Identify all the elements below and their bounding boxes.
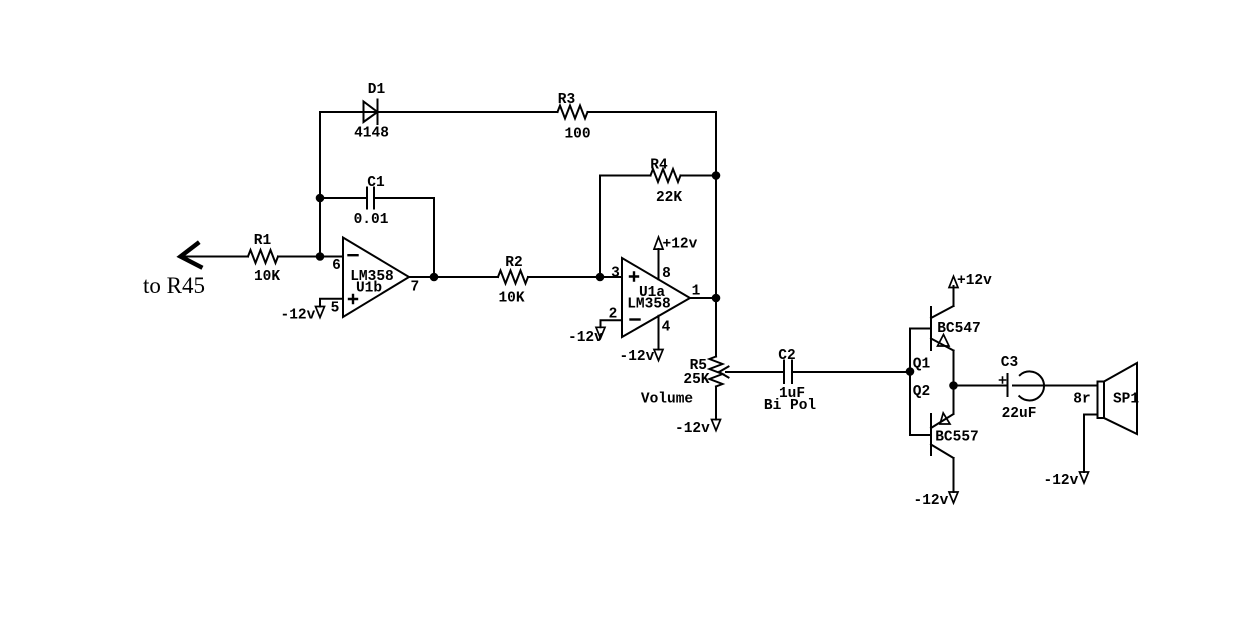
wire C1 left	[320, 197, 367, 199]
R5 wiper arrow	[719, 367, 784, 378]
svg-text:5: 5	[331, 301, 340, 317]
svg-text:8: 8	[662, 266, 671, 282]
wire U1a output	[690, 297, 716, 299]
wire emitter node to C3	[954, 385, 1008, 387]
svg-text:+12v: +12v	[957, 273, 992, 289]
svg-text:4148: 4148	[354, 126, 389, 142]
junction node U1a output	[712, 294, 721, 303]
wire R1 to pin6	[278, 256, 343, 258]
svg-text:2: 2	[609, 307, 618, 323]
U1a plus input mark	[630, 273, 638, 281]
op-amp U1a	[622, 258, 690, 337]
power -12v arrow U1a pin2	[596, 327, 605, 338]
transistor Q2	[910, 386, 954, 493]
power -12v arrow Q2	[949, 492, 958, 503]
svg-text:-12v: -12v	[281, 308, 316, 324]
svg-text:0.01: 0.01	[354, 212, 389, 228]
wire pin5 step	[320, 299, 343, 307]
power -12v arrow R5	[712, 420, 721, 431]
svg-text:Q1: Q1	[913, 357, 931, 373]
C3 plus mark	[1000, 377, 1006, 383]
wire output node to R2	[434, 276, 498, 278]
arrow to R45	[181, 244, 201, 267]
wire R5 bottom	[715, 387, 717, 420]
resistor R4	[651, 169, 681, 182]
svg-text:+12v: +12v	[663, 237, 698, 253]
wire C3 to speaker	[1013, 385, 1098, 387]
wire R4 right	[681, 175, 717, 177]
svg-text:7: 7	[410, 280, 419, 296]
wire top feedback left segment	[320, 111, 378, 113]
svg-text:3: 3	[611, 266, 620, 282]
svg-text:25K: 25K	[683, 372, 709, 388]
svg-text:R4: R4	[650, 158, 668, 174]
junction node emitters out	[949, 381, 958, 390]
svg-text:6: 6	[332, 258, 341, 274]
svg-text:R1: R1	[254, 233, 272, 249]
power +12v arrow Q1	[949, 276, 958, 287]
wire pin8	[658, 249, 660, 279]
wire vertical x716 feedback/pot	[715, 112, 717, 357]
wire input to R1	[184, 256, 248, 258]
svg-text:D1: D1	[368, 82, 386, 98]
svg-text:R2: R2	[505, 255, 522, 271]
wire top feedback right segment	[588, 111, 717, 113]
U1b minus input mark	[349, 254, 358, 256]
diode D1	[364, 100, 378, 125]
svg-text:-12v: -12v	[620, 349, 655, 365]
svg-text:to R45: to R45	[143, 273, 205, 298]
wire base vertical x910	[909, 329, 911, 436]
resistor R3	[558, 106, 588, 119]
svg-text:SP1: SP1	[1113, 392, 1139, 408]
capacitor C1	[367, 188, 374, 209]
svg-text:100: 100	[564, 127, 590, 143]
svg-text:1: 1	[692, 284, 701, 300]
power -12v arrow U1a pin4	[654, 350, 663, 361]
wire pin4	[658, 316, 660, 350]
wire R2 to pin3	[528, 276, 622, 278]
wire vertical x600 to R4	[599, 176, 601, 278]
svg-text:Volume: Volume	[641, 392, 693, 408]
svg-text:C1: C1	[367, 175, 385, 191]
capacitor C3 curved plate	[1019, 371, 1044, 400]
svg-text:-12v: -12v	[1044, 473, 1079, 489]
junction node pin6	[316, 252, 325, 261]
power -12v arrow U1b pin5	[316, 307, 325, 318]
svg-text:4: 4	[662, 320, 671, 336]
wire vertical x434 to output node	[433, 198, 435, 277]
wire left vertical x320	[319, 112, 321, 257]
potentiometer R5	[710, 357, 723, 387]
wire C1 right	[374, 197, 434, 199]
svg-text:-12v: -12v	[914, 493, 949, 509]
svg-text:U1b: U1b	[356, 281, 382, 297]
junction node R4 right	[712, 171, 721, 180]
op-amp U1b	[343, 238, 409, 318]
wire U1b output	[409, 276, 434, 278]
transistor Q1	[910, 286, 954, 386]
svg-text:-12v: -12v	[675, 421, 710, 437]
capacitor C3 plate	[1007, 374, 1009, 396]
wire speaker return	[1084, 415, 1098, 473]
svg-text:C2: C2	[778, 348, 795, 364]
svg-text:8r: 8r	[1073, 392, 1090, 408]
junction node transistor bases	[906, 367, 915, 376]
svg-text:22K: 22K	[656, 190, 682, 206]
power -12v arrow SP1	[1080, 472, 1089, 483]
svg-text:22uF: 22uF	[1002, 406, 1037, 422]
junction node pin3/R4	[596, 273, 605, 282]
svg-text:-12v: -12v	[568, 330, 603, 346]
wire pin2 step	[601, 320, 623, 327]
svg-text:C3: C3	[1001, 355, 1018, 371]
svg-text:10K: 10K	[498, 291, 524, 307]
capacitor C2	[784, 361, 792, 384]
junction node C1 left	[316, 194, 325, 203]
wire R4 left	[600, 175, 651, 177]
resistor R1	[248, 250, 278, 263]
speaker SP1	[1098, 363, 1138, 434]
power +12v arrow U1a pin8	[654, 237, 663, 249]
resistor R2	[498, 271, 528, 284]
svg-text:LM358: LM358	[627, 297, 671, 313]
svg-text:Bi Pol: Bi Pol	[764, 398, 817, 414]
U1a minus input mark	[631, 318, 640, 320]
junction node U1b output	[430, 273, 439, 282]
U1b plus input mark	[349, 295, 357, 303]
svg-text:R3: R3	[558, 92, 575, 108]
svg-text:BC547: BC547	[937, 321, 981, 337]
svg-text:Q2: Q2	[913, 384, 930, 400]
wire C2 to base node	[792, 371, 910, 373]
svg-text:10K: 10K	[254, 269, 280, 285]
wire top feedback mid segment	[378, 111, 558, 113]
svg-text:BC557: BC557	[935, 430, 979, 446]
